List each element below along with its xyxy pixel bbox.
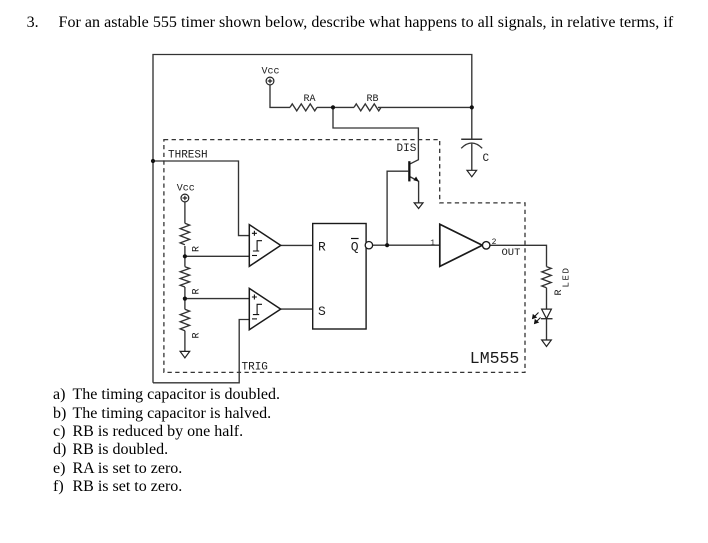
svg-text:C: C <box>483 153 490 165</box>
svg-text:DIS: DIS <box>397 143 417 155</box>
svg-text:THRESH: THRESH <box>168 149 208 161</box>
svg-text:2: 2 <box>492 238 497 247</box>
svg-text:Vcc: Vcc <box>177 184 195 195</box>
svg-text:1: 1 <box>430 239 435 248</box>
svg-text:Q: Q <box>351 240 359 255</box>
svg-text:R: R <box>192 246 203 252</box>
svg-text:R: R <box>554 289 565 295</box>
svg-text:R: R <box>192 288 203 294</box>
svg-text:TRIG: TRIG <box>242 361 268 373</box>
svg-text:R: R <box>192 332 203 338</box>
svg-text:R: R <box>318 240 326 255</box>
svg-text:Vcc: Vcc <box>262 67 280 78</box>
svg-text:S: S <box>318 304 326 319</box>
svg-text:LED: LED <box>562 266 572 287</box>
svg-text:OUT: OUT <box>502 247 521 259</box>
svg-text:LM555: LM555 <box>470 349 520 368</box>
svg-text:RA: RA <box>304 94 316 105</box>
svg-text:RB: RB <box>367 94 379 105</box>
